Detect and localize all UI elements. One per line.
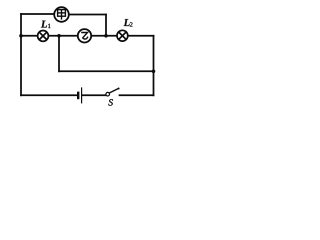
meter U-yi circle	[78, 29, 91, 42]
wire: right vertical	[153, 36, 155, 96]
wire: top branch horizontal (meter jia branch)	[21, 13, 54, 15]
switch S	[106, 88, 119, 96]
wire: switch to right corner segment	[120, 94, 154, 96]
wire: bottom left segment to battery	[21, 94, 77, 96]
wire: middle vertical from node A	[58, 36, 60, 72]
node: right inner junction	[152, 70, 156, 74]
wire: top branch right drop	[105, 15, 107, 36]
label L1	[41, 21, 47, 28]
character jia inside meter	[58, 10, 66, 20]
switch blade	[109, 88, 118, 93]
node A: middle branch junction	[57, 34, 61, 38]
node: left T junction	[19, 34, 23, 38]
wire: main row segments	[21, 35, 38, 37]
ammeter U-jia circle	[54, 7, 69, 22]
wire: left vertical	[20, 14, 22, 95]
node B: top branch junction	[104, 34, 108, 38]
character yi inside meter	[81, 33, 88, 40]
wire: battery to switch segment	[82, 94, 106, 96]
lamp L2	[117, 30, 128, 41]
battery cell	[78, 87, 81, 103]
lamp L1	[38, 31, 49, 42]
label L2	[124, 19, 130, 26]
wire: inner horizontal	[59, 70, 154, 72]
battery short thick negative plate	[77, 92, 79, 100]
switch blade end dot	[118, 88, 120, 90]
battery long thin positive plate	[81, 87, 83, 103]
label S	[108, 99, 112, 105]
